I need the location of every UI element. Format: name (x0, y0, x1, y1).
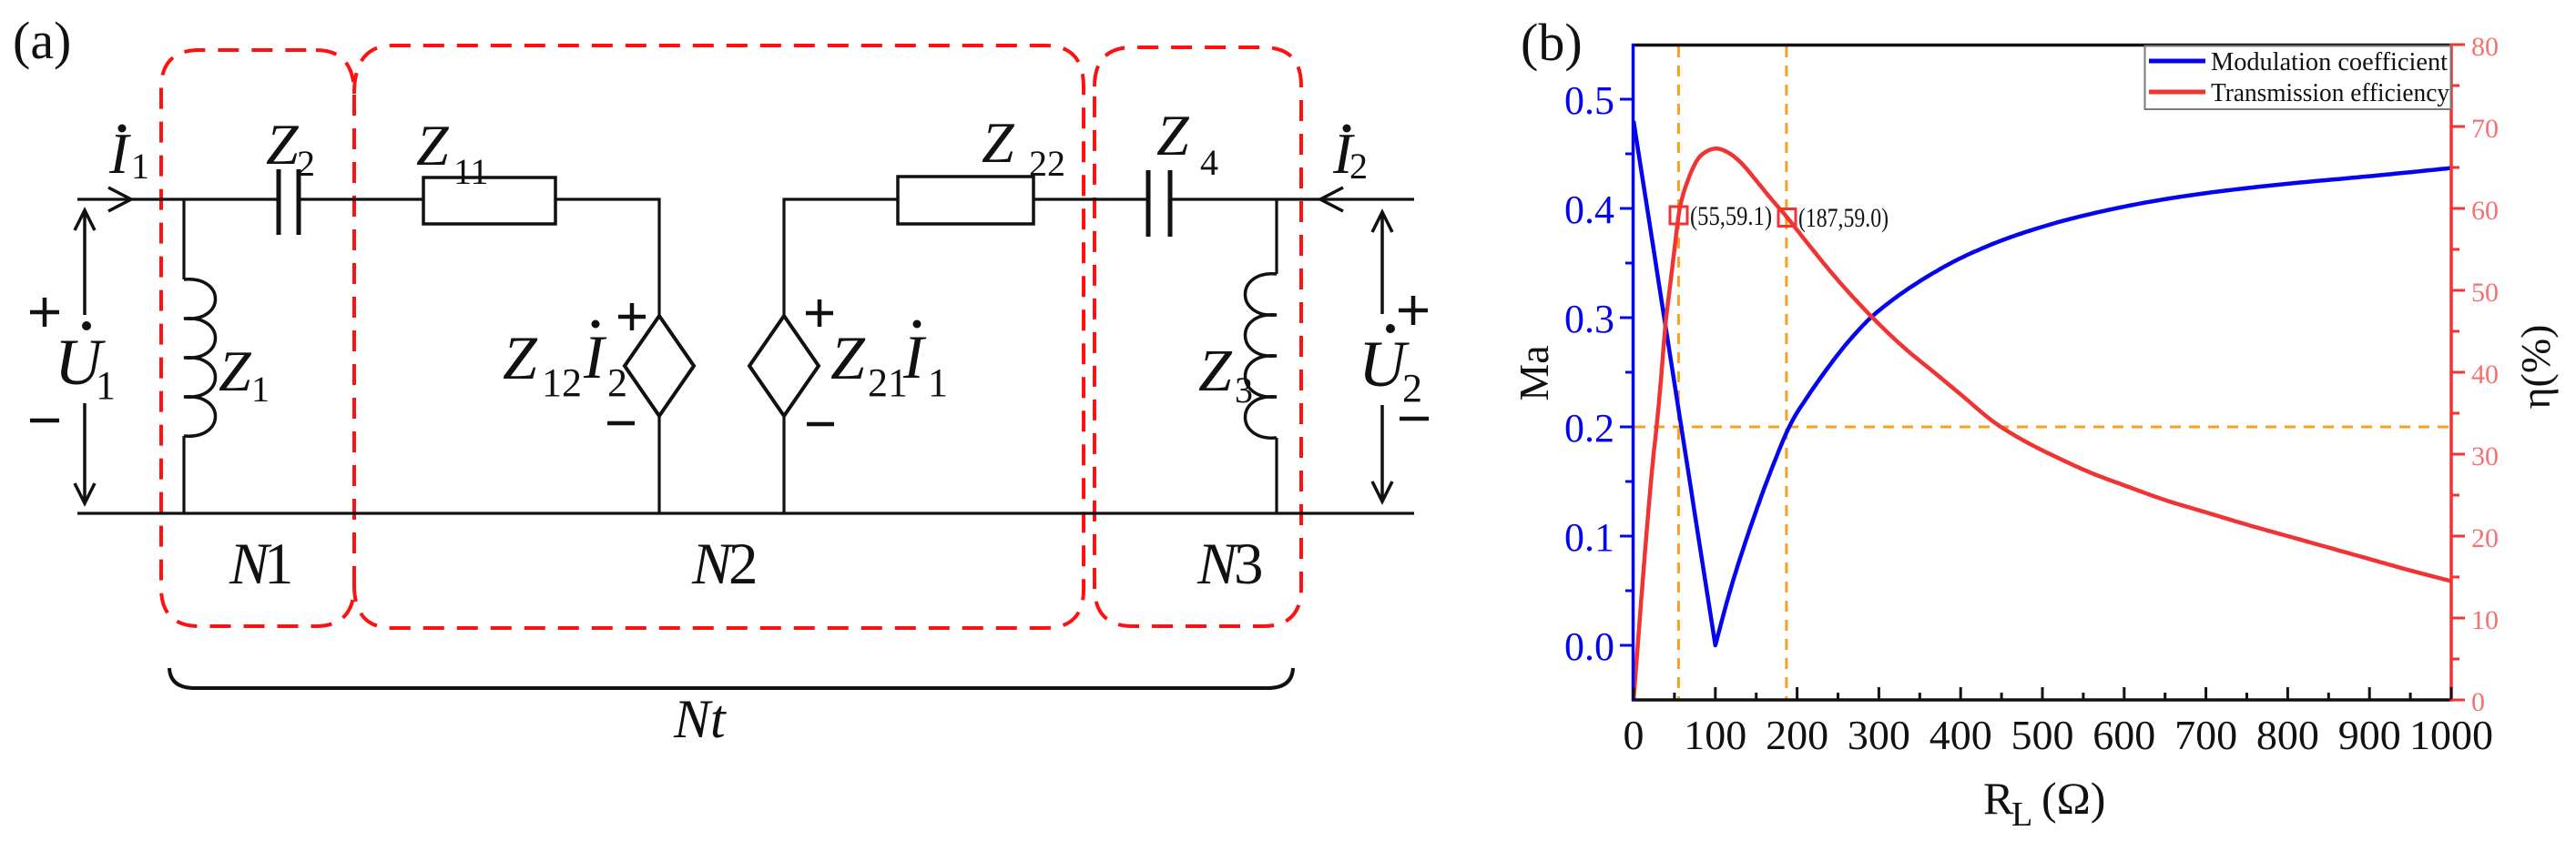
wire Z4 to output terminal (1172, 198, 1414, 200)
x axis tick labels (1624, 712, 2494, 758)
minus sign of source 1 (607, 421, 635, 426)
svg-text:70: 70 (2471, 114, 2499, 144)
wire Z2 to Z11 (300, 198, 423, 200)
right eta tick labels (2471, 32, 2499, 717)
svg-text:Modulation coefficient: Modulation coefficient (2211, 48, 2448, 76)
axis title Ma (1511, 345, 1557, 400)
label Z4 (1156, 103, 1218, 183)
label N3 (1196, 532, 1264, 597)
svg-text:I: I (902, 322, 927, 391)
axis title eta(%) (2512, 324, 2559, 409)
svg-text:900: 900 (2338, 712, 2401, 758)
svg-text:0: 0 (1624, 712, 1644, 758)
dashed network box N2 (354, 46, 1084, 628)
svg-text:2: 2 (297, 143, 315, 184)
svg-text:3: 3 (1235, 370, 1253, 410)
minus sign U2 (1400, 417, 1429, 421)
plus sign U2 (1399, 296, 1428, 325)
svg-text:(Ω): (Ω) (2041, 773, 2105, 824)
svg-text:η(%): η(%) (2512, 324, 2559, 409)
svg-text:60: 60 (2471, 196, 2499, 226)
svg-text:(b): (b) (1521, 13, 1583, 72)
minus sign of source 2 (807, 422, 834, 427)
svg-text:2: 2 (1402, 366, 1422, 410)
svg-text:11: 11 (453, 151, 489, 192)
label Z12 I2 (503, 320, 627, 406)
svg-text:R: R (1983, 773, 2014, 824)
svg-text:Z: Z (266, 112, 300, 177)
dependent source Z21I1 (diamond) (749, 316, 819, 416)
svg-text:700: 700 (2174, 712, 2237, 758)
svg-text:L: L (2011, 795, 2032, 834)
svg-text:0.5: 0.5 (1564, 78, 1614, 123)
svg-text:300: 300 (1848, 712, 1910, 758)
orange dashed guide lines (1634, 46, 2450, 699)
svg-text:(a): (a) (13, 11, 71, 70)
svg-text:Z: Z (830, 323, 866, 392)
svg-text:40: 40 (2471, 360, 2499, 390)
svg-text:30: 30 (2471, 441, 2499, 471)
svg-text:100: 100 (1684, 712, 1746, 758)
svg-text:3: 3 (1234, 532, 1264, 597)
resistor Z11 (423, 177, 555, 224)
legend box (2145, 46, 2451, 110)
svg-text:(55,59.1): (55,59.1) (1690, 201, 1772, 231)
svg-text:21: 21 (868, 360, 908, 405)
plus sign of source 2 (806, 299, 833, 327)
svg-text:Z: Z (503, 323, 538, 392)
panel (a) label (13, 11, 71, 70)
current arrow I1 (108, 187, 131, 211)
label I1 (108, 121, 149, 187)
svg-text:Z: Z (1156, 103, 1190, 167)
bottom rail wire (77, 512, 1414, 514)
svg-text:I: I (583, 322, 607, 391)
svg-text:2: 2 (728, 532, 759, 597)
svg-text:0.4: 0.4 (1564, 187, 1614, 232)
svg-text:Z: Z (1198, 338, 1233, 404)
label Z1 (219, 339, 270, 410)
svg-text:20: 20 (2471, 523, 2499, 553)
node branch Z1 (182, 199, 185, 279)
label Z21 I1 (830, 320, 948, 406)
wire source 2 to resistor Z22 (784, 199, 898, 318)
current arrow I2 (1320, 187, 1343, 211)
svg-text:0.3: 0.3 (1564, 297, 1614, 341)
label Z2 (266, 112, 315, 184)
svg-text:1: 1 (251, 369, 270, 410)
svg-text:4: 4 (1200, 142, 1218, 183)
dependent source Z12I2 (diamond) (625, 316, 694, 416)
data point markers and annotations (1670, 207, 1796, 227)
dashed network box N1 (161, 50, 354, 626)
red transmission efficiency curve (1634, 148, 2451, 700)
svg-text:Transmission efficiency: Transmission efficiency (2211, 79, 2449, 107)
voltage arrow U1 (75, 210, 95, 503)
svg-text:80: 80 (2471, 32, 2499, 62)
label I2 (1332, 121, 1368, 187)
node branch Z3 (1275, 199, 1278, 274)
svg-text:22: 22 (1029, 143, 1065, 184)
plus sign of source 1 (618, 303, 646, 330)
wire Z3 to bottom rail (1275, 438, 1278, 513)
panel (b) label (1521, 13, 1583, 72)
inductor Z1 (184, 279, 216, 436)
svg-text:0.1: 0.1 (1564, 515, 1614, 560)
label N1 (229, 532, 294, 597)
svg-text:(187,59.0): (187,59.0) (1798, 203, 1889, 233)
svg-text:800: 800 (2256, 712, 2319, 758)
svg-text:0.0: 0.0 (1564, 624, 1614, 669)
resistor Z22 (898, 177, 1033, 224)
svg-text:12: 12 (542, 360, 582, 405)
svg-text:600: 600 (2092, 712, 2155, 758)
wire Z22 to capacitor Z4 (1033, 198, 1146, 200)
plus sign U1 (30, 298, 59, 327)
svg-text:0: 0 (2471, 687, 2485, 717)
wire source 2 to bottom rail (782, 414, 785, 513)
svg-text:400: 400 (1929, 712, 1992, 758)
minus sign U1 (30, 419, 59, 423)
blue modulation coefficient curve (1634, 121, 2451, 645)
svg-text:1000: 1000 (2409, 712, 2493, 758)
label Z22 (982, 110, 1065, 184)
svg-text:2: 2 (1349, 146, 1368, 187)
label Z11 (416, 113, 489, 192)
svg-text:1: 1 (96, 363, 116, 408)
plot frame spines (1632, 44, 2453, 702)
label U1 (55, 321, 116, 408)
label Z3 (1198, 338, 1253, 410)
capacitor Z2 (277, 169, 301, 235)
svg-text:10: 10 (2471, 605, 2499, 635)
svg-text:1: 1 (264, 532, 294, 597)
svg-text:Nt: Nt (673, 689, 727, 749)
svg-text:Z: Z (416, 113, 450, 177)
svg-text:Z: Z (982, 110, 1015, 175)
wire Z1 to bottom rail (182, 436, 185, 513)
top wire left segment with input terminal (77, 198, 277, 200)
svg-text:50: 50 (2471, 278, 2499, 308)
right eta axis ticks (2451, 45, 2465, 700)
svg-text:1: 1 (928, 360, 948, 405)
svg-text:1: 1 (131, 146, 149, 187)
x axis ticks (1634, 687, 2451, 700)
svg-text:Ma: Ma (1511, 345, 1557, 400)
label Nt (673, 689, 727, 749)
svg-text:0.2: 0.2 (1564, 406, 1614, 451)
wire source 1 to bottom rail (657, 414, 660, 513)
dashed network box N3 (1095, 47, 1301, 626)
left Ma tick labels (1564, 78, 1614, 669)
voltage arrow U2 (1372, 212, 1392, 502)
svg-text:Z: Z (219, 339, 252, 403)
label N2 (691, 532, 759, 597)
svg-text:200: 200 (1766, 712, 1828, 758)
x axis title RL (Ohm) (1983, 773, 2105, 834)
left Ma axis ticks (1620, 99, 1634, 645)
svg-text:2: 2 (607, 360, 627, 405)
wire Z11 to dependent source 1 (555, 199, 659, 318)
inductor Z3 (1246, 274, 1278, 438)
capacitor Z4 (1146, 170, 1173, 237)
brace Nt (169, 668, 1293, 688)
svg-text:500: 500 (2011, 712, 2074, 758)
label U2 (1359, 324, 1422, 410)
